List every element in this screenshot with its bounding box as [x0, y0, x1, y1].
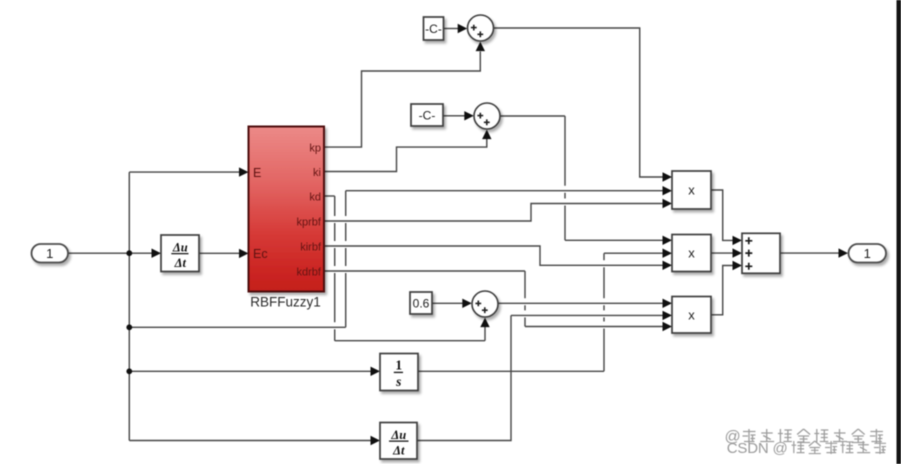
svg-text:kirbf: kirbf	[300, 241, 322, 253]
svg-text:0.6: 0.6	[413, 297, 430, 311]
svg-text:kd: kd	[309, 191, 321, 203]
arrow up into sum1 south	[476, 42, 485, 52]
product1 (x)	[672, 171, 711, 209]
arrow up into sum2 south	[482, 130, 491, 140]
sum2 (circle)	[474, 103, 500, 129]
arrow into product3 input1	[663, 299, 673, 308]
junction dots	[126, 250, 132, 374]
node: branch dot e-signal	[126, 324, 132, 330]
node: branch dot main input	[126, 250, 132, 256]
arrow into sum3 west	[462, 299, 472, 308]
svg-text:Δt: Δt	[392, 443, 405, 457]
arrow up into sum3 south	[480, 318, 489, 328]
arrow into sum rect input2	[733, 248, 743, 257]
inport 1 (oval)	[32, 244, 69, 263]
wire: e-signal branch to product1 input2 (horiz y=327.3)	[129, 326, 345, 328]
arrow into Du/Dt1	[152, 249, 162, 258]
arrow into product3 input3	[663, 322, 673, 331]
svg-text:E: E	[253, 166, 261, 180]
wire: sum1 out to product1 input1	[494, 28, 665, 177]
arrow into sum rect input3	[733, 261, 743, 270]
wires group	[68, 28, 839, 441]
svg-text:kprbf: kprbf	[297, 216, 322, 228]
arrow into product2 input3	[663, 261, 673, 270]
arrow into product3 input2	[663, 311, 673, 320]
svg-text:Δt: Δt	[174, 256, 187, 270]
arrow into sum2 west	[464, 111, 474, 120]
arrow into sum rect input1	[733, 236, 743, 245]
wire: kp out up to sum1 bottom	[324, 52, 480, 148]
wire: kdrbf horiz to product3 input3	[525, 326, 664, 328]
wire: product1 out to sum rect input1	[711, 190, 734, 240]
svg-text:Δu: Δu	[172, 241, 188, 255]
svg-text:x: x	[688, 183, 695, 198]
constant -C- 1	[424, 17, 444, 40]
sum rectangle (+++)	[742, 233, 780, 273]
wire: product2 out to sum rect input2	[711, 252, 734, 254]
wire: kprbf to product1 input3	[324, 204, 664, 222]
wire: Du/Dt2 out up x=511 to product3 input2	[417, 315, 664, 440]
wire: sum rect out to outport	[780, 252, 839, 254]
wire: ki out up to sum2 bottom	[324, 139, 487, 172]
wire: kd vertical x=334.7 with crossing gaps	[334, 196, 336, 341]
svg-text:RBFFuzzy1: RBFFuzzy1	[250, 295, 321, 310]
arrow into E port	[239, 167, 249, 176]
sum3 (circle)	[472, 291, 498, 317]
wire: branch bottom to Du/Dt2	[129, 440, 372, 442]
derivative block Du/Dt 1	[161, 235, 199, 272]
subsystem RBFFuzzy1 (red block)	[249, 127, 325, 310]
svg-text:CSDN @: CSDN @	[727, 440, 788, 457]
arrow into outport	[839, 248, 849, 257]
arrow into Du/Dt2	[371, 436, 381, 445]
svg-text:1: 1	[46, 246, 53, 261]
integrator 1/s	[380, 354, 418, 391]
wire: main branch vertical at x=129.3	[128, 172, 130, 440]
svg-text:ki: ki	[313, 167, 321, 179]
svg-text:kp: kp	[309, 142, 321, 154]
wire: sum3 out to product3 input1	[498, 302, 664, 304]
arrow into product1 input2	[663, 186, 673, 195]
wire: kdrbf right then down x=525 with gaps	[324, 271, 525, 327]
constant 0.6	[410, 292, 432, 314]
wire: sum2 out down x=565 with gaps to product2 input1	[500, 116, 664, 240]
wire: product3 out to sum rect input3	[711, 266, 734, 315]
svg-text:-C-: -C-	[419, 109, 436, 123]
svg-text:1: 1	[864, 246, 871, 261]
svg-text:x: x	[688, 246, 695, 261]
wire: e-signal vertical x=345.7 with crossing gaps	[345, 191, 347, 328]
wire: 0.6 to sum3	[432, 302, 463, 304]
arrowheads	[152, 24, 849, 445]
arrow into product1 input3	[663, 199, 673, 208]
product3 (x)	[672, 297, 711, 334]
wire: integrator out up x=604 with gaps to product2 input2	[418, 253, 664, 371]
arrow into sum1 west	[458, 24, 468, 33]
watermark (light gray, bottom right, two overlapping lines)	[725, 429, 887, 458]
wire: branch to E input	[129, 171, 240, 173]
svg-text:-C-: -C-	[425, 22, 442, 36]
svg-text:1: 1	[395, 357, 402, 372]
arrow into integrator	[371, 367, 381, 376]
product2 (x)	[672, 235, 711, 272]
node: branch dot integrator feed	[126, 368, 132, 374]
arrow into product1 input1	[663, 172, 673, 181]
constant -C- 2	[411, 104, 443, 126]
outport 1 (oval)	[849, 244, 887, 263]
sum1 (circle)	[468, 15, 494, 41]
wire: Du/Dt1 out to Ec input	[199, 252, 240, 254]
svg-text:x: x	[688, 307, 695, 322]
wire: inport 1 to Du/Dt1	[68, 252, 159, 254]
right black bar	[897, 0, 901, 464]
svg-text:s: s	[395, 374, 401, 389]
svg-text:Ec: Ec	[253, 247, 268, 261]
svg-text:Δu: Δu	[390, 428, 406, 442]
wire: kd bottom horiz to sum3 bottom	[335, 327, 485, 341]
wire: kd out right	[324, 195, 335, 197]
wire: kirbf to product2 input3	[324, 246, 664, 265]
derivative block Du/Dt 2	[380, 423, 417, 460]
wire: e-signal horiz y=190.7 to product1	[346, 190, 664, 192]
wire: -C-1 to sum1	[444, 28, 459, 30]
wire: branch to integrator 1/s	[129, 370, 372, 372]
wire: -C-2 to sum2	[443, 115, 465, 117]
svg-text:kdrbf: kdrbf	[297, 266, 322, 278]
arrow into Ec port	[239, 249, 249, 258]
arrow into product2 input1	[663, 236, 673, 245]
arrow into product2 input2	[663, 249, 673, 258]
